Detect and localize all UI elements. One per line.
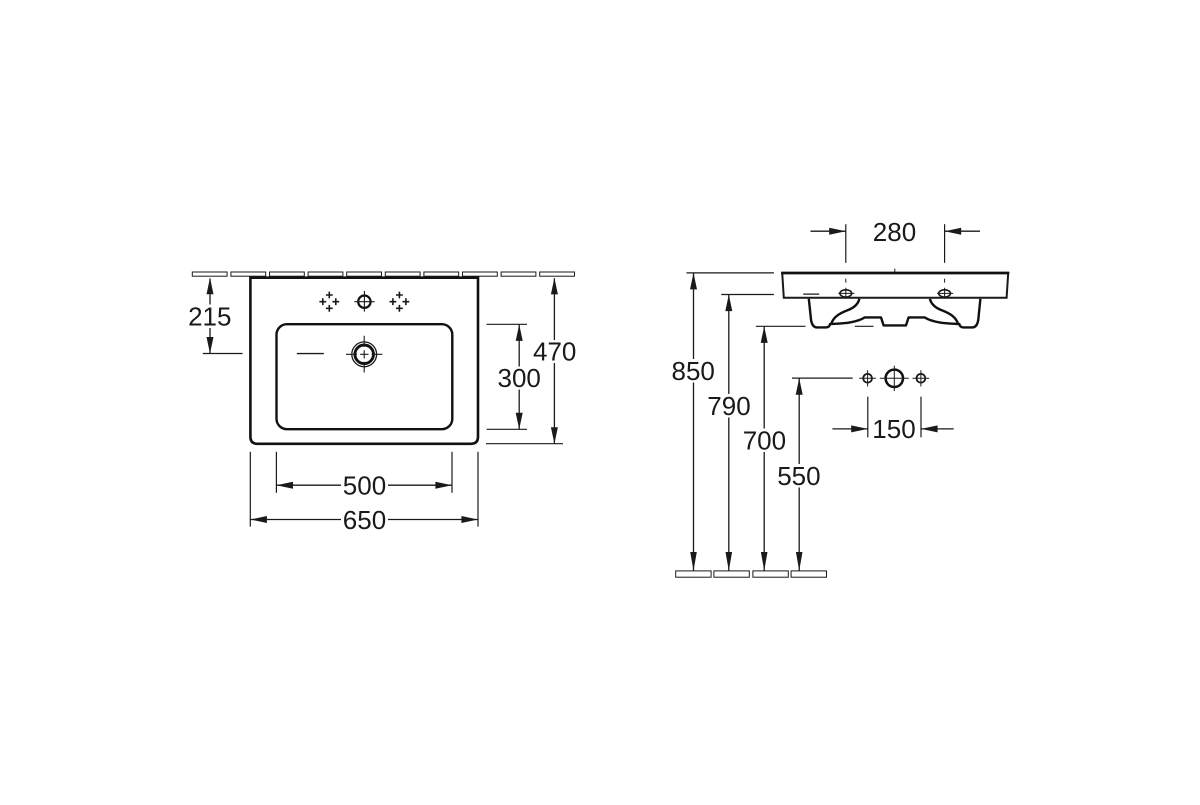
mounting hole right xyxy=(937,279,953,299)
dim 470 xyxy=(486,278,577,444)
s-curve right xyxy=(930,299,958,324)
basin inner bowl xyxy=(277,324,453,429)
svg-text:790: 790 xyxy=(707,391,750,421)
dim 700 xyxy=(742,326,874,571)
svg-text:650: 650 xyxy=(343,505,386,535)
tap hole cluster left xyxy=(319,292,339,312)
svg-text:150: 150 xyxy=(872,414,915,444)
floor hatch line xyxy=(676,571,827,577)
tap holes row (front) xyxy=(859,366,929,391)
dim 790 xyxy=(707,295,774,571)
dim 150 xyxy=(832,397,953,445)
wall hatch line (top) xyxy=(192,272,574,276)
slab (basin rim side) xyxy=(782,273,1008,298)
overflow tick (front) xyxy=(803,293,819,295)
svg-text:300: 300 xyxy=(498,363,541,393)
mounting hole left xyxy=(838,279,854,299)
svg-text:850: 850 xyxy=(672,356,715,386)
dim 500 xyxy=(276,452,452,501)
dim 280 xyxy=(811,217,981,263)
svg-text:280: 280 xyxy=(873,217,916,247)
svg-text:215: 215 xyxy=(188,301,231,331)
dim 850 xyxy=(671,273,774,571)
slab center tick xyxy=(894,269,896,273)
basin outer outline xyxy=(250,278,478,444)
dim 215 xyxy=(188,278,243,354)
dim 300 xyxy=(487,324,542,429)
tap hole center circle xyxy=(354,291,374,312)
dim 550 xyxy=(777,378,853,571)
svg-text:550: 550 xyxy=(777,461,820,491)
svg-text:700: 700 xyxy=(743,425,786,455)
tap hole cluster right xyxy=(390,292,410,312)
overflow tick xyxy=(297,353,324,355)
under profile xyxy=(809,299,981,328)
svg-text:500: 500 xyxy=(343,471,386,501)
dim 650 xyxy=(250,452,478,535)
s-curve left xyxy=(831,299,859,324)
svg-text:470: 470 xyxy=(533,337,576,367)
drain xyxy=(346,336,382,373)
